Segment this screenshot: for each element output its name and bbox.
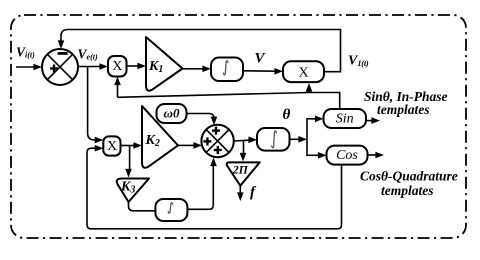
multiplier XV1 xyxy=(283,61,324,82)
integrator I2 xyxy=(257,128,290,151)
wire 2PI apex to f xyxy=(237,186,244,201)
svg-text:X: X xyxy=(107,139,117,154)
wire X1 to K1 xyxy=(127,63,147,70)
wire K3 apex to integrator I3 xyxy=(129,202,156,211)
integrator I3 xyxy=(155,199,187,221)
block Sin xyxy=(324,109,367,128)
wire input Vi(t) with arrow into summer S1 xyxy=(16,64,42,71)
wire K1 to integrator I1 xyxy=(183,66,212,73)
wire S1 output to X1 with branch down xyxy=(78,63,108,70)
svg-text:templates: templates xyxy=(377,102,430,117)
multiplier X2 xyxy=(103,136,120,155)
svg-text:Cosθ-Quadrature: Cosθ-Quadrature xyxy=(360,169,458,184)
svg-text:2Π: 2Π xyxy=(232,163,249,177)
wire K2 to S2 xyxy=(178,142,202,149)
wire S2 output to I2 with branch down to 2PI xyxy=(234,137,257,162)
summing junction S1 xyxy=(42,49,78,85)
wire Cos output arrow xyxy=(368,152,384,159)
wire XV1 output up and across top back into S1 xyxy=(58,30,341,72)
svg-text:templates: templates xyxy=(381,183,434,198)
integrator I1 xyxy=(211,58,243,82)
svg-text:θ: θ xyxy=(283,107,291,123)
wire Sin output arrow xyxy=(366,117,380,124)
converter 2PI triangle xyxy=(227,162,260,185)
wire Ve branch down to X2 upper input xyxy=(88,67,104,144)
wire I3 up into S2 bottom xyxy=(187,158,217,210)
wire w0 to S2 top xyxy=(187,114,218,126)
gain K3 xyxy=(117,179,149,203)
svg-text:Sin: Sin xyxy=(336,111,354,126)
block Cos xyxy=(327,146,368,165)
svg-text:ω0: ω0 xyxy=(164,106,180,121)
block w0 xyxy=(157,104,187,123)
wire I2 to Sin/Cos branch xyxy=(290,116,327,159)
summing junction S2 xyxy=(201,125,233,157)
wire Sin top feedback to XV1 and X1 xyxy=(114,77,340,110)
wire I1 to XV1 xyxy=(243,68,283,75)
svg-text:X: X xyxy=(112,59,122,74)
gain K1 xyxy=(146,37,183,91)
svg-text:X: X xyxy=(298,65,308,80)
multiplier X1 xyxy=(108,56,127,77)
svg-text:Cos: Cos xyxy=(336,148,358,163)
wire Cos bottom feedback to X2 lower input xyxy=(87,145,342,229)
gain K2 xyxy=(142,106,178,168)
wire X2 to K2 with branch to K3 xyxy=(121,142,143,177)
